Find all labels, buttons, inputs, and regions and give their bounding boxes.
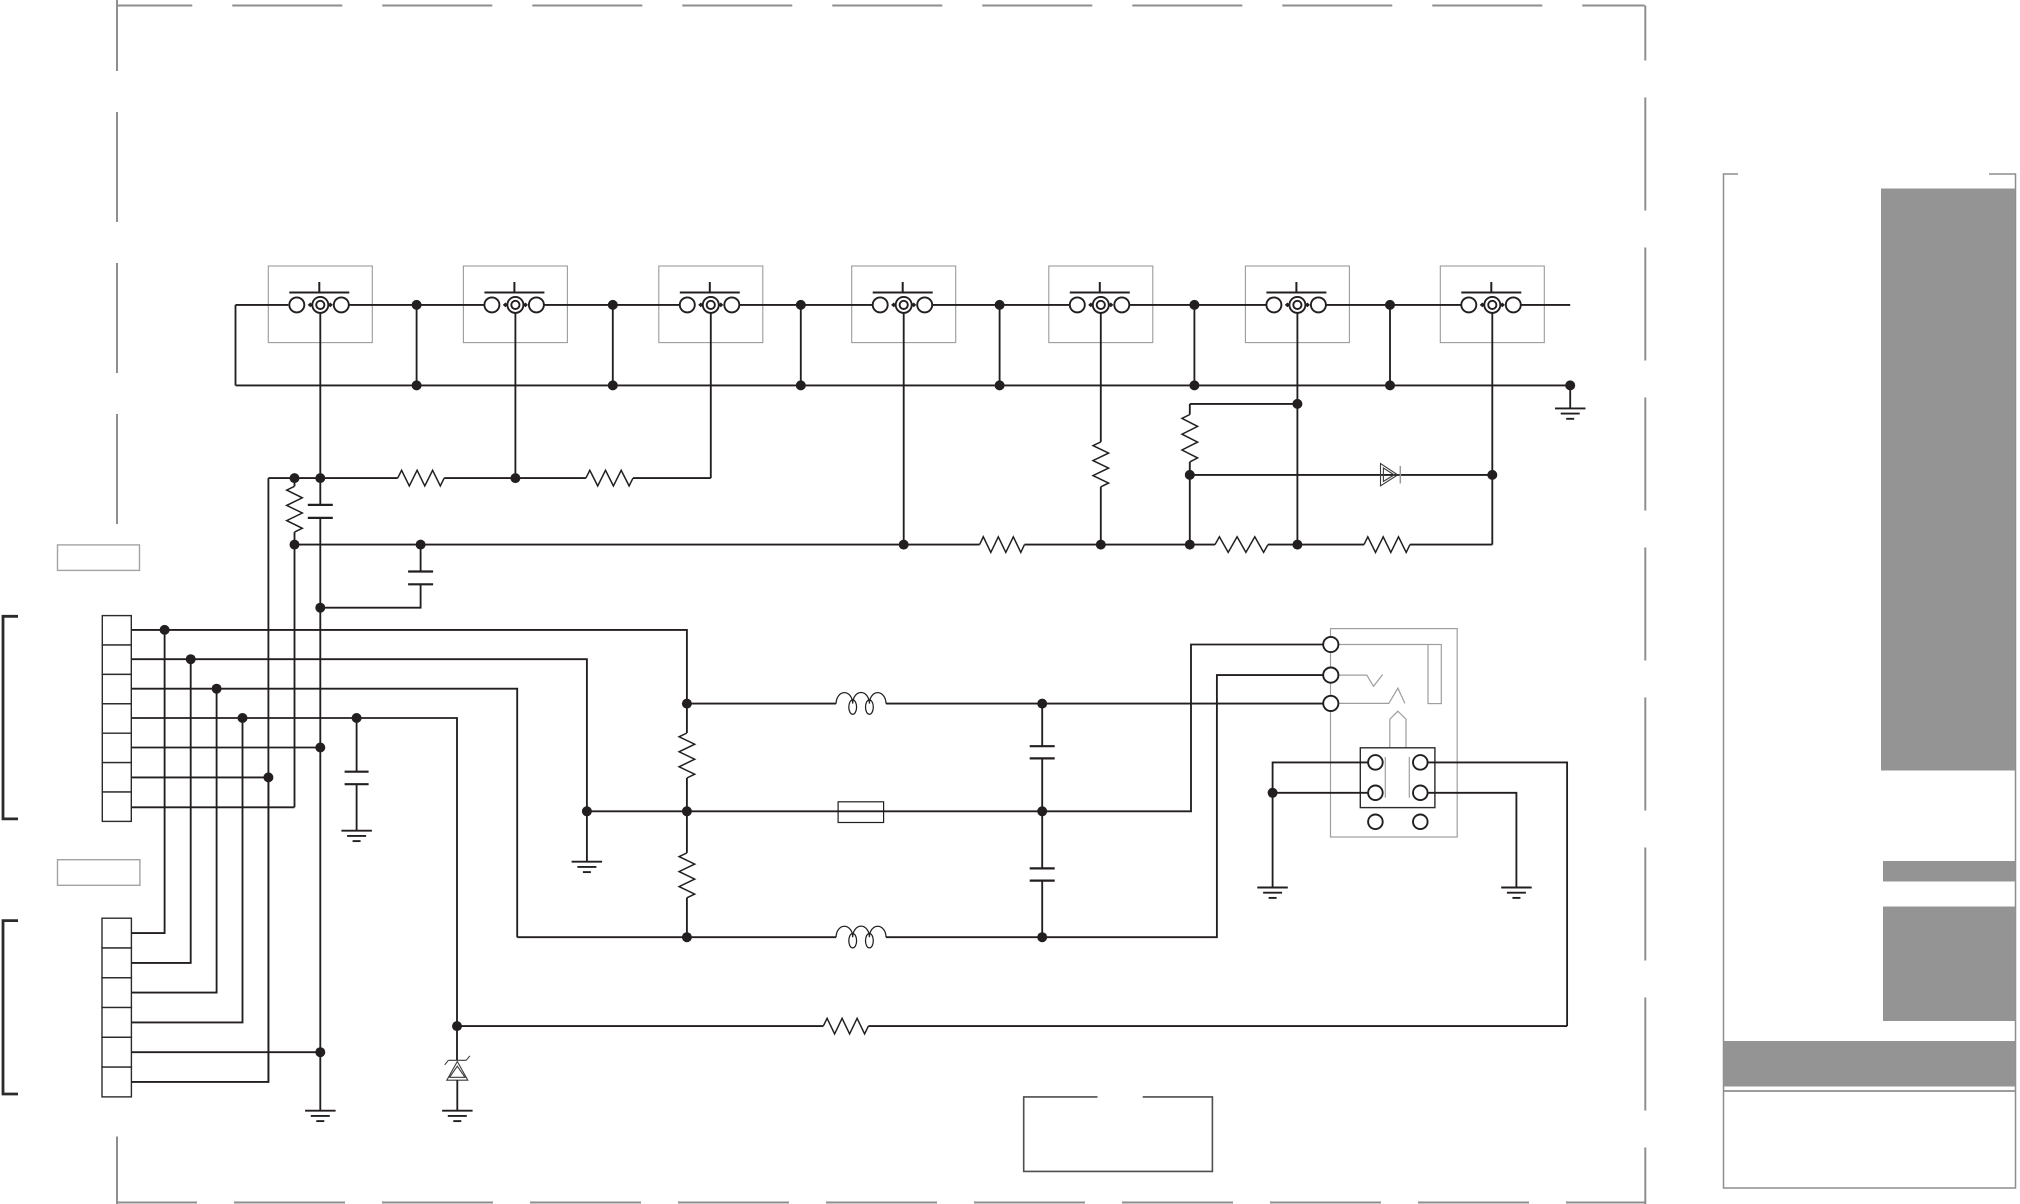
wire S5 column lower <box>1096 487 1106 550</box>
resistor R1 <box>398 470 445 486</box>
jack switch pin BL <box>1368 786 1383 801</box>
resistor R6 <box>980 537 1025 553</box>
fuse F1 <box>838 802 884 823</box>
junction S1/R-row <box>315 473 325 483</box>
wire zener stub <box>456 1026 458 1060</box>
wire mid gnd stub <box>586 811 588 861</box>
wire zener to gnd <box>456 1080 458 1111</box>
junction R3/mid row <box>290 540 300 550</box>
wire R3 link <box>294 478 296 807</box>
wire mid row <box>295 544 1493 546</box>
key contact switch S5 <box>1049 266 1153 343</box>
wire C2 branch <box>320 545 420 608</box>
zener ZD1 <box>445 1056 470 1080</box>
key contact switch S1 <box>268 266 372 343</box>
junction R9 top-row <box>1185 470 1195 550</box>
capacitor C2 <box>408 572 433 585</box>
wire C4 branch <box>1041 704 1043 812</box>
ground (zener) <box>442 1111 473 1121</box>
wire bus left drop <box>235 305 237 386</box>
sidebar divider rule <box>1724 1090 2016 1092</box>
wire S5 column upper <box>1100 313 1102 442</box>
wire filter bottom rail <box>517 675 1323 937</box>
page border bottom (dashed) <box>117 1202 1645 1204</box>
ground (jack left) <box>1257 888 1288 898</box>
wire R-row left corner <box>268 477 710 479</box>
wire CN1 pin7 <box>131 806 294 808</box>
capacitor C5 <box>1030 868 1055 880</box>
jack switch box <box>1360 748 1435 808</box>
ground (C3) <box>341 831 372 841</box>
wire CN1 pin6 <box>131 776 268 778</box>
jack terminal ring <box>1323 668 1338 683</box>
wire C3 branch <box>356 718 358 831</box>
sidebar gray strip 4 <box>1724 1041 2016 1087</box>
label box 2 <box>58 860 140 886</box>
resistor R2 <box>586 470 633 486</box>
wire top bus <box>236 304 1571 306</box>
wire R11 link <box>686 811 688 937</box>
key contact switch S6 <box>1245 266 1349 343</box>
wire bus right end <box>1565 380 1575 408</box>
connector CN2 (6-pin header) <box>102 918 131 1097</box>
junction S1/cap link <box>315 603 325 613</box>
bracket CN1 <box>3 616 18 819</box>
wire CN2 pin6 <box>131 777 268 1082</box>
bracket CN2 <box>3 921 18 1094</box>
headphone jack J1 body <box>1331 629 1458 837</box>
resistor R12 <box>823 1018 868 1034</box>
wire CN1 pin2 <box>131 659 587 811</box>
junction S1/CN1-5 <box>315 743 325 753</box>
key contact switch S3 <box>659 266 763 343</box>
jack switch pin TR <box>1413 755 1428 770</box>
wire detect row <box>457 1025 1567 1027</box>
wire filter mid rail <box>587 645 1324 812</box>
jack terminal sleeve <box>1323 696 1338 711</box>
page border right (dashed) <box>1644 6 1646 1204</box>
junction bottom rail left <box>682 932 692 942</box>
wire diode row <box>1190 474 1493 476</box>
resistor R5c <box>1093 442 1109 487</box>
junction mid rail gnd <box>582 806 592 816</box>
resistor R7 <box>1215 537 1268 553</box>
jack switch pin TL <box>1368 755 1383 770</box>
wire CN1 pin3 <box>131 689 517 938</box>
wire jack switch BR <box>1428 793 1517 888</box>
inductor L1 <box>836 693 886 715</box>
jack switch pin BR <box>1413 786 1428 801</box>
junction detect/zener <box>452 1021 462 1031</box>
junction R-row/R3 <box>290 473 300 483</box>
wire CN1 pin5 <box>131 747 320 749</box>
jack terminal tip <box>1323 637 1338 652</box>
resistor R8 <box>1364 537 1410 553</box>
inductor L2 <box>836 926 886 948</box>
key contact switch S2 <box>463 266 567 343</box>
connector CN1 (7-pin header) <box>102 616 131 822</box>
wire CN2 pin3 <box>131 684 221 993</box>
bus tie wires with junctions <box>412 300 1395 391</box>
wire S3 column <box>710 313 712 478</box>
resistor R10 <box>679 733 695 778</box>
junction S1/CN2-5 <box>315 1047 325 1057</box>
wire lower bus <box>236 384 1571 386</box>
junction bottom rail right <box>1037 932 1047 942</box>
wire CN2 pin4 <box>131 718 242 1022</box>
resistor R9 <box>1182 415 1198 462</box>
wire jack switch left <box>1268 762 1369 887</box>
page border top (dashed) <box>116 5 1644 7</box>
jack mount pin L <box>1368 815 1383 830</box>
wire filter top rail <box>687 703 1324 705</box>
title box (gap in top edge) <box>1024 1097 1213 1172</box>
sidebar gray block 1 <box>1881 189 2015 771</box>
ground (mid rail) <box>572 862 603 872</box>
junction top rail left <box>682 699 692 709</box>
wire bias column <box>267 478 269 1082</box>
capacitor C4 <box>1030 746 1055 758</box>
junction bias/CN1-6 <box>263 772 273 782</box>
wire S1 column <box>319 313 321 1111</box>
capacitor C3 <box>345 772 369 785</box>
wire R9 link <box>1190 404 1298 545</box>
wire CN2 pin5 <box>131 1051 320 1053</box>
wire S6 column <box>1292 313 1302 550</box>
capacitor C1 <box>308 505 333 518</box>
wire R10 link <box>686 704 688 812</box>
sidebar frame <box>1724 174 2016 1188</box>
sidebar gray strip 2 <box>1883 861 2016 882</box>
key contact switch S4 <box>852 266 956 343</box>
ground (bus right) <box>1555 408 1586 418</box>
wire S7 column <box>1487 313 1497 545</box>
resistor R11 <box>679 853 695 898</box>
junction top rail right <box>1037 699 1047 709</box>
sidebar gray block 3 <box>1883 907 2016 1022</box>
wire S4 column <box>899 313 909 550</box>
diode D1 <box>1381 464 1401 486</box>
jack mount pin R <box>1413 815 1428 830</box>
junction mid rail R10 <box>682 806 692 816</box>
ground (jack BR) <box>1501 888 1532 898</box>
page border left (dashed) <box>116 0 118 1204</box>
wire C5 branch <box>1041 811 1043 937</box>
wire CN1 pin4 <box>131 713 457 1026</box>
wire CN2 pin2 <box>131 654 195 963</box>
wire jack switch TR <box>1428 762 1568 1026</box>
wire S2 column <box>510 313 520 483</box>
ground (S1 column) <box>305 1111 336 1121</box>
junction mid rail C4 <box>1037 806 1047 816</box>
wire CN1 pin1 <box>131 630 687 704</box>
key contact switch S7 <box>1440 266 1544 343</box>
wire CN2 pin1 <box>131 625 169 933</box>
resistor R3 <box>287 486 303 532</box>
junction mid/C2 <box>416 540 426 550</box>
label box 1 <box>58 545 140 571</box>
